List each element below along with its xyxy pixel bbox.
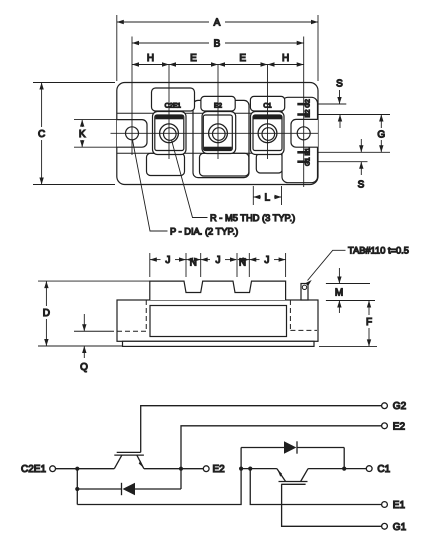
- dimension J N extension lines: [150, 253, 286, 277]
- svg-text:D: D: [43, 308, 50, 319]
- node junction E2 riser: [179, 467, 183, 471]
- side view baseplate: [123, 341, 315, 346]
- bottom tab under C2E1 terminal: [147, 153, 185, 175]
- svg-text:E: E: [190, 53, 197, 64]
- bottom tab under C1 terminal: [256, 153, 282, 173]
- diode D1 (free-wheel, lower arm): [241, 447, 285, 449]
- wire Q2 emitter to E2: [144, 468, 204, 470]
- svg-text:G: G: [377, 130, 385, 141]
- mounting hole left: [126, 127, 139, 140]
- node junction emitter Q1 left: [239, 467, 243, 471]
- svg-text:TAB#110 t=0.5: TAB#110 t=0.5: [348, 246, 409, 256]
- svg-text:J: J: [165, 255, 170, 266]
- pin G1 extension line: [318, 161, 368, 163]
- centerline left hole / B extension: [131, 37, 133, 156]
- node junction E1 riser: [248, 467, 252, 471]
- terminal C2E1 screw inner circle: [164, 128, 177, 141]
- terminal C2E1 clamp square: [155, 115, 184, 151]
- svg-text:M: M: [335, 288, 343, 299]
- terminal E2 clamp square: [203, 115, 232, 151]
- terminal E2 screw outer circle: [209, 124, 228, 143]
- hidden edge left horizontal: [117, 330, 146, 332]
- dimension D extension bottom: [38, 345, 122, 347]
- dimension J N line: [150, 259, 161, 261]
- svg-text:E2: E2: [214, 103, 222, 110]
- terminal E1: [382, 502, 388, 508]
- svg-text:E1: E1: [393, 500, 406, 511]
- terminal E2 label tab: [201, 96, 235, 111]
- svg-text:C2E1: C2E1: [165, 103, 182, 110]
- case step line lower: [117, 152, 282, 154]
- centerline terminal C2E1: [168, 65, 170, 160]
- dimension M extension bottom: [326, 300, 375, 302]
- hidden edge left vertical: [145, 300, 147, 331]
- centerline terminal C1: [267, 65, 269, 160]
- dimension B line: [132, 42, 209, 44]
- svg-text:N: N: [190, 258, 197, 269]
- horizontal centerline: [111, 132, 319, 134]
- dimension K extension top: [74, 119, 117, 121]
- svg-text:E2: E2: [213, 464, 226, 475]
- terminal C1 screw outer circle: [258, 124, 277, 143]
- svg-text:K: K: [79, 129, 86, 140]
- diode D2 (free-wheel, upper arm): [77, 488, 122, 490]
- terminal C1 label tab: [250, 96, 284, 111]
- dimension Q arrows: [83, 314, 85, 331]
- right aux-pin recess: [282, 97, 318, 182]
- dimension F line: [368, 301, 370, 316]
- node junction C1: [342, 467, 346, 471]
- leader TAB: [308, 250, 346, 280]
- terminal E2 main: [203, 466, 209, 472]
- wire C2E1 to Q2 collector: [56, 468, 115, 470]
- dimension D line: [45, 281, 47, 306]
- terminal E2 clamp thick bar: [204, 147, 232, 151]
- svg-text:B: B: [214, 39, 221, 50]
- transistor Q1 (IGBT, lower arm): [277, 469, 286, 482]
- svg-text:J: J: [216, 255, 221, 266]
- dimension D extension top: [38, 280, 150, 282]
- terminal C1 clamp thick bar: [254, 116, 282, 120]
- hidden edge right horizontal: [290, 329, 317, 331]
- aux pin G1: [297, 160, 308, 163]
- terminal C1 body: [251, 112, 285, 155]
- svg-text:G2: G2: [393, 401, 407, 412]
- terminal C2E1: [50, 466, 56, 472]
- dimension M extension top: [326, 283, 370, 285]
- bottom tab under E2 terminal: [200, 153, 249, 176]
- terminal C1: [366, 466, 372, 472]
- dimension K extension bottom: [74, 146, 117, 148]
- node junction C2E1: [75, 467, 79, 471]
- wire emitter row to Q1: [241, 468, 277, 470]
- wire E1 riser: [250, 469, 381, 505]
- terminal C2E1 screw outer circle: [160, 124, 179, 143]
- svg-text:J: J: [264, 255, 269, 266]
- leader R-M5: [172, 140, 208, 218]
- svg-text:H: H: [147, 53, 154, 64]
- hidden edge right vertical: [289, 300, 291, 330]
- pin E1 extension line: [318, 151, 390, 153]
- dimension A extension left: [116, 15, 118, 81]
- centerline right pins / B extension: [303, 37, 305, 188]
- terminal C2E1 label tab: [152, 88, 195, 111]
- aux pin G2: [297, 103, 308, 106]
- svg-text:S: S: [358, 180, 365, 191]
- dimension F extension bottom: [319, 345, 377, 347]
- side view body: [117, 300, 318, 341]
- plateau block behind E2 terminal: [193, 100, 249, 177]
- terminal E2 body: [202, 112, 236, 154]
- svg-text:C2E1: C2E1: [21, 464, 46, 475]
- terminal C1 screw inner circle: [262, 128, 275, 141]
- right mounting slot: [291, 119, 318, 147]
- terminal E2 screw inner circle: [213, 128, 226, 141]
- svg-text:G1 E1: G1 E1: [305, 147, 312, 166]
- dimension L extension left: [252, 186, 254, 205]
- svg-text:Q: Q: [80, 362, 88, 373]
- svg-text:C: C: [38, 129, 45, 140]
- aux pin E2: [297, 113, 308, 116]
- dimension A extension right: [317, 15, 319, 81]
- svg-text:C1: C1: [263, 103, 272, 110]
- case step line upper: [117, 112, 282, 114]
- dimension C extension top: [33, 82, 115, 84]
- pin G2 extension line: [318, 103, 346, 105]
- wire bottom row left: [77, 448, 241, 505]
- svg-text:G1: G1: [393, 522, 407, 533]
- dimension C line: [41, 83, 43, 128]
- tab terminal: [301, 284, 308, 301]
- centerline terminal E2: [217, 65, 219, 160]
- left mounting slot: [117, 120, 147, 148]
- tab terminal hole: [302, 285, 306, 289]
- node junction diode row: [75, 487, 79, 491]
- terminal G1: [382, 523, 388, 529]
- svg-text:E2: E2: [393, 421, 406, 432]
- svg-text:E: E: [239, 53, 246, 64]
- side view terminal plateau with notches: [150, 281, 286, 300]
- mounting hole right: [297, 127, 310, 140]
- terminal C2E1 clamp thick bar: [155, 116, 183, 120]
- dimension A line: [117, 21, 209, 23]
- dimension Q reference line: [74, 330, 114, 332]
- dimension G line: [380, 115, 382, 129]
- module outline (top view): [117, 83, 318, 185]
- dimension L extension right: [281, 186, 283, 205]
- terminal E2 aux: [382, 423, 388, 429]
- wire Q2 gate to G2: [141, 406, 382, 453]
- svg-text:F: F: [366, 317, 372, 328]
- leader P-DIA: [133, 140, 168, 231]
- terminal G2: [382, 403, 388, 409]
- svg-text:P - DIA. (2 TYP.): P - DIA. (2 TYP.): [170, 227, 238, 237]
- wire Q1 collector to C1: [308, 468, 366, 470]
- dimension C extension bottom: [33, 184, 115, 186]
- dimension K line: [81, 120, 83, 127]
- side view recess rect: [150, 306, 287, 337]
- transistor Q2 (IGBT, upper arm): [117, 451, 141, 453]
- terminal C2E1 body: [153, 112, 187, 155]
- wire Q1 gate to G1: [282, 484, 382, 526]
- dimension M arrows: [338, 268, 340, 284]
- dimension L line: [253, 196, 261, 198]
- svg-text:H: H: [282, 53, 289, 64]
- pin E2 extension line: [318, 114, 390, 116]
- aux pin E1: [297, 151, 308, 154]
- svg-text:N: N: [239, 258, 246, 269]
- svg-text:A: A: [214, 18, 221, 29]
- dimension S top: [339, 90, 341, 104]
- svg-text:R - M5 THD (3 TYP.): R - M5 THD (3 TYP.): [210, 213, 295, 223]
- dimension H E E H line: [132, 64, 304, 66]
- svg-text:E2 G2: E2 G2: [305, 99, 312, 118]
- svg-text:S: S: [336, 79, 343, 90]
- wire C2E1 vertical drop: [76, 469, 78, 505]
- terminal C1 clamp square: [253, 115, 282, 151]
- wire aux E2 riser: [181, 426, 382, 489]
- wire C1 diode riser: [343, 448, 345, 469]
- svg-text:L: L: [265, 193, 271, 204]
- dimension S bottom: [360, 139, 362, 152]
- svg-text:C1: C1: [377, 464, 390, 475]
